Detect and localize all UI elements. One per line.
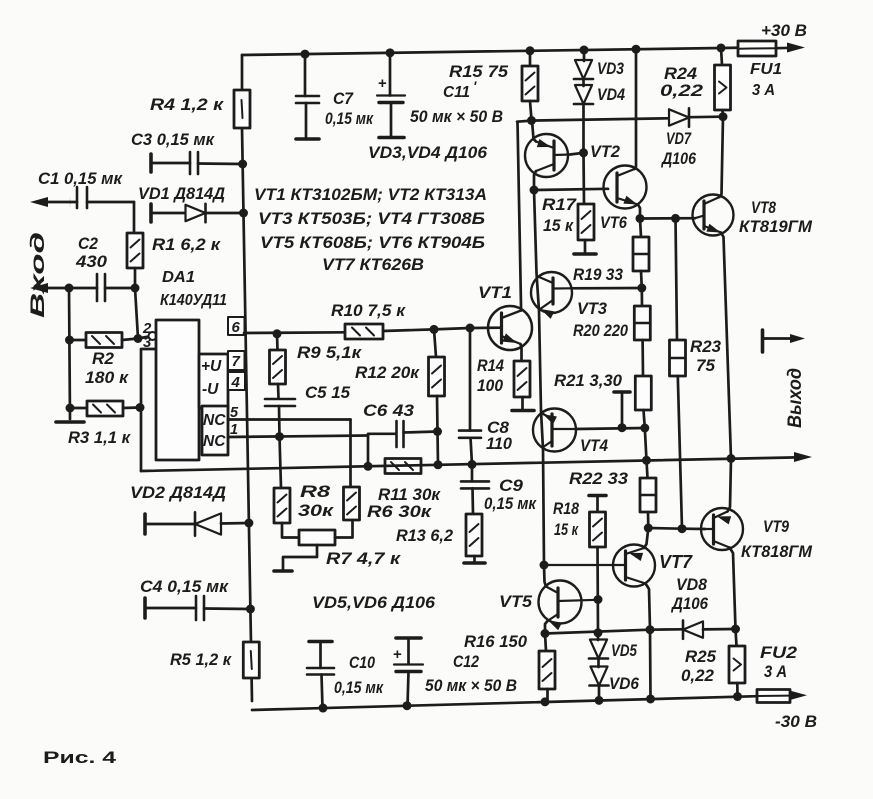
svg-text:VT4: VT4 [580, 437, 608, 455]
label pin 2 [142, 320, 152, 337]
diode VD8 Д106 [683, 620, 736, 638]
label VD7 [666, 130, 692, 148]
svg-text:R15 75: R15 75 [449, 63, 509, 81]
svg-text:С2: С2 [78, 235, 98, 253]
label VD2 Д814Д [130, 483, 226, 502]
node top rail x=305 [301, 50, 310, 59]
svg-text:VT5: VT5 [499, 593, 533, 611]
resistor R17 15к [578, 153, 594, 253]
label FU1 3A [750, 61, 782, 99]
pin 7 box [228, 351, 245, 370]
resistor R20 220 [634, 288, 650, 376]
node VT5 emitter [541, 629, 550, 638]
label Выход [785, 368, 806, 428]
wire -30V bottom rail [252, 696, 757, 710]
wire top rail to +30V arrow [776, 46, 792, 49]
label C4 0,15 мк [140, 578, 230, 596]
label VT9 [763, 517, 789, 536]
label C11' [443, 78, 477, 101]
wire C6 left down to feedback line [367, 436, 370, 467]
svg-text:+: + [378, 75, 387, 92]
svg-text:С7: С7 [333, 90, 354, 108]
label pin 1 [230, 422, 238, 438]
svg-text:100: 100 [477, 377, 504, 395]
label R3 1,1 к [68, 429, 132, 447]
label pin 7 [232, 353, 241, 370]
svg-text:R14: R14 [477, 357, 504, 375]
svg-text:180 к: 180 к [85, 369, 130, 387]
node bottom rail x=545 [541, 697, 550, 706]
node VT3 collector [637, 284, 646, 293]
node C9 top [468, 460, 477, 469]
resistor R18 15к [590, 496, 606, 632]
op-amp DA1 NC box [202, 406, 228, 455]
svg-text:6: 6 [232, 319, 241, 336]
svg-text:VD6: VD6 [609, 675, 640, 693]
wire VT9 emitter down [730, 548, 736, 630]
svg-text:VD3: VD3 [597, 60, 624, 78]
label R2 180к [85, 350, 130, 387]
label +U [201, 358, 222, 375]
label C3 0,15 мк [131, 131, 216, 149]
wire VT6 emitter down [638, 205, 640, 219]
label R25 0,22 [681, 648, 717, 685]
label R11 30к [378, 485, 441, 504]
svg-text:0,15 мк: 0,15 мк [325, 110, 374, 128]
svg-text:VD4: VD4 [597, 86, 625, 104]
op-amp DA1 supply box +U/-U [199, 354, 228, 408]
terminal C12 [396, 636, 421, 640]
label VT6 [600, 214, 628, 232]
svg-text:R25: R25 [685, 648, 717, 666]
label R10 7,5 к [331, 302, 407, 320]
resistor R21 3,30 [635, 376, 651, 428]
diode VD2 Д814Д [145, 512, 249, 535]
label VD4 [597, 86, 625, 104]
+30V output arrow [787, 43, 805, 53]
label C7 0,15 мк [325, 90, 374, 128]
node bottom rail x=650.5 [646, 694, 655, 703]
node R2/pin2 [134, 334, 143, 343]
wire FU2 to arrow [790, 694, 794, 697]
node VT6 emitter [636, 214, 645, 223]
wire pin1 node down to R8 [280, 437, 282, 488]
label R20 220 [573, 322, 629, 340]
wire VT2 base [570, 153, 584, 155]
wire VT8 emitter down to output [721, 233, 731, 459]
node R23 bottom [678, 524, 687, 533]
transistor VT4 [533, 409, 576, 452]
svg-text:VT3: VT3 [577, 300, 607, 318]
wire R21/R22 through output [645, 428, 648, 478]
label parts list line3 [260, 234, 485, 252]
label 50мк x 50В [410, 108, 503, 126]
svg-text:VT9: VT9 [763, 517, 789, 536]
wire VD4 to VT2 base [582, 104, 585, 153]
label parts list line4 [322, 256, 424, 274]
svg-text:15 к: 15 к [554, 521, 579, 539]
label C10 [334, 654, 384, 697]
terminal C4 [143, 598, 147, 618]
terminal C3 [149, 154, 153, 172]
svg-text:NC: NC [203, 433, 226, 450]
capacitor C4 0,15мк [145, 596, 250, 620]
node VT5 base [594, 595, 603, 604]
capacitor C11 50мк [377, 53, 405, 137]
label R21 3,30 [554, 372, 623, 390]
label NC bottom [203, 433, 226, 450]
pin 6 box [228, 317, 245, 335]
node R12/R11 right [434, 460, 443, 469]
label C12 plus [393, 646, 402, 663]
node bottom rail x=737.5 [733, 692, 742, 701]
svg-text:NC: NC [203, 412, 226, 429]
op-amp DA1 main box [156, 320, 199, 460]
node VD8 right [731, 625, 740, 634]
wire VT5 collector up [544, 565, 546, 587]
svg-text:+: + [393, 646, 402, 663]
label Д106 VD8 [670, 595, 709, 613]
terminal output [763, 330, 806, 352]
svg-text:VT7: VT7 [659, 552, 693, 572]
ground left bus [56, 420, 84, 424]
svg-text:VT8: VT8 [751, 198, 776, 217]
wire VT1 emitter to R14 [521, 344, 522, 361]
svg-text:R12 20к: R12 20к [355, 364, 421, 382]
wire VT1 base [434, 328, 502, 330]
label R14 100 [477, 357, 504, 395]
node top rail x=390 [386, 48, 395, 57]
node R23 top [671, 214, 680, 223]
wire pin3 feedback vertical [141, 349, 156, 471]
wire VT6 collector to rail [635, 49, 637, 169]
pin 4 box [228, 372, 245, 390]
wire VT7 line to rail [649, 630, 652, 699]
label C5 15 [305, 384, 351, 402]
svg-text:Д106: Д106 [660, 150, 696, 168]
label R5 1,2 к [170, 651, 233, 669]
label C2 430 [75, 235, 108, 271]
wire VT3 collector right [572, 287, 642, 290]
node VD2 on bus [244, 519, 253, 528]
wire VT5 emitter line to VD8 line [545, 629, 682, 633]
label C8 110 [486, 419, 513, 453]
svg-text:R7 4,7 к: R7 4,7 к [326, 550, 402, 568]
svg-text:С4 0,15 мк: С4 0,15 мк [140, 578, 230, 596]
capacitor C10 0,15мк [307, 642, 334, 709]
capacitor C5 15 [265, 399, 295, 437]
svg-text:С1 0,15 мк: С1 0,15 мк [38, 170, 124, 188]
capacitor C2 [97, 274, 135, 301]
svg-text:R6 30к: R6 30к [367, 503, 433, 521]
terminal VD2 [143, 514, 147, 534]
fuse FU2 3A [757, 690, 790, 703]
label VT7 [659, 552, 693, 572]
node VT7 base [540, 561, 549, 570]
output arrow [794, 452, 812, 462]
wire VD6 to rail [598, 686, 601, 701]
resistor R3 1,1к [70, 401, 140, 416]
svg-text:R5 1,2 к: R5 1,2 к [170, 651, 233, 669]
svg-text:VT6: VT6 [600, 214, 628, 232]
svg-text:+U: +U [201, 358, 222, 375]
svg-text:+30 В: +30 В [761, 21, 807, 40]
svg-text:FU1: FU1 [750, 61, 782, 78]
svg-text:С5 15: С5 15 [305, 384, 351, 402]
terminal R13 [464, 561, 485, 565]
svg-text:R9 5,1к: R9 5,1к [297, 344, 363, 362]
pin 2 circle [149, 332, 157, 340]
svg-text:7: 7 [232, 353, 241, 370]
svg-text:3: 3 [143, 334, 152, 351]
label C11 plus [378, 75, 387, 92]
svg-text:VD7: VD7 [666, 130, 692, 148]
svg-text:R24: R24 [664, 65, 697, 83]
node top rail x=721 [717, 43, 726, 52]
label КТ819ГМ [739, 218, 813, 236]
label VD1 Д814Д [138, 185, 225, 203]
wire VT6 emitter to VT8 base [640, 217, 695, 220]
svg-text:R22 33: R22 33 [569, 470, 628, 488]
label R1 6,2 к [152, 236, 222, 254]
svg-text:VT5 КТ608Б; VT6 КТ904Б: VT5 КТ608Б; VT6 КТ904Б [260, 234, 485, 252]
svg-text:КТ819ГМ: КТ819ГМ [739, 218, 813, 236]
wire VT7 emitter down [646, 584, 651, 630]
terminal C7 [296, 137, 319, 141]
label VT1 [478, 283, 512, 302]
transistor VT1 [488, 306, 532, 350]
label К140УД11 [160, 292, 227, 309]
label R15 75 [449, 63, 509, 81]
node VT2 base [579, 148, 588, 157]
node top rail x=584 [580, 45, 589, 54]
wire C1 to R1 [133, 202, 136, 233]
node R1/C2 [131, 284, 140, 293]
label -U [202, 381, 219, 398]
node VT4 emitter right [640, 424, 649, 433]
resistor R19 33 [633, 219, 649, 289]
label VD3 [597, 60, 624, 78]
label R12 20к [355, 364, 421, 382]
label VT4 [580, 437, 608, 455]
transistor VT8 [693, 195, 734, 236]
label pin 5 [230, 405, 239, 421]
wire VT2 collector down [534, 171, 536, 190]
svg-text:R10 7,5 к: R10 7,5 к [331, 302, 407, 320]
wire R23/R22 node to VT9 base [682, 527, 705, 530]
label VT3 [577, 300, 607, 318]
svg-text:С6 43: С6 43 [363, 402, 414, 420]
node C8 top [466, 324, 475, 333]
node R24 bottom [719, 112, 728, 121]
svg-text:Д106: Д106 [670, 595, 709, 613]
wire pin6 to R10 [244, 331, 345, 334]
resistor R13 6,2 [466, 514, 482, 562]
label Вход [28, 232, 49, 318]
node VT2 collector [530, 186, 539, 195]
label VD3,VD4 Д106 [368, 144, 488, 162]
wire pin2 [138, 337, 149, 339]
label VT2 [590, 143, 620, 161]
svg-text:К140УД11: К140УД11 [160, 292, 227, 309]
wire VT5 emitter down [545, 621, 548, 634]
svg-text:VD3,VD4 Д106: VD3,VD4 Д106 [368, 144, 488, 162]
wire +30V top rail [242, 48, 738, 55]
node R10/R12 top [430, 325, 439, 334]
label R22 33 [569, 470, 628, 488]
svg-text:R20 220: R20 220 [573, 322, 629, 340]
svg-text:VT1: VT1 [478, 283, 512, 302]
svg-text:VD1 Д814Д: VD1 Д814Д [138, 185, 225, 203]
label NC top [203, 412, 226, 429]
capacitor C7 0,15мк [296, 54, 319, 139]
fuse FU1 3A [738, 41, 776, 56]
svg-text:VT7 КТ626В: VT7 КТ626В [322, 256, 424, 274]
svg-text:КТ818ГМ: КТ818ГМ [741, 543, 813, 561]
wire VT9 collector up to output [728, 459, 732, 512]
node R3/pin3 [136, 403, 145, 412]
diode VD1 Д814Д [151, 204, 243, 222]
resistor R10 7,5к [345, 324, 434, 339]
label R19 33 [573, 266, 623, 284]
node R22 bottom [644, 524, 653, 533]
label +30 В [761, 21, 807, 40]
wire output line [141, 457, 800, 471]
capacitor C6 43 [368, 421, 438, 447]
svg-text:R1 6,2 к: R1 6,2 к [152, 236, 222, 254]
svg-text:R21 3,30: R21 3,30 [554, 372, 623, 390]
transistor VT2 [525, 134, 570, 177]
label Д106 VD7 [660, 150, 696, 168]
input arrow lower [30, 283, 97, 293]
wire VT1 collector up [518, 122, 522, 311]
svg-text:VT2: VT2 [590, 143, 620, 161]
svg-text:VD5,VD6 Д106: VD5,VD6 Д106 [312, 594, 436, 612]
node R3 tap [66, 404, 75, 413]
capacitor C8 110 [459, 328, 481, 464]
label pin 4 [231, 374, 241, 391]
wire left bus vertical [242, 55, 252, 701]
diode VD6 [589, 658, 639, 693]
transistor VT9 [701, 508, 743, 550]
resistor R16 150 [539, 634, 555, 702]
label parts list line2 [258, 210, 485, 228]
node VD1 on bus [239, 209, 248, 218]
node VD5 top [594, 628, 603, 637]
node C3 on bus [238, 160, 247, 169]
node top rail x=530 [526, 46, 535, 55]
node input lower bus [65, 284, 74, 293]
svg-text:VT1 КТ3102БМ; VT2 КТ313А: VT1 КТ3102БМ; VT2 КТ313А [254, 186, 487, 204]
transistor VT7 [544, 545, 655, 587]
label R23 75 [690, 338, 721, 375]
resistor R11 30к [385, 459, 421, 474]
svg-text:R18: R18 [553, 500, 580, 518]
svg-text:R11 30к: R11 30к [378, 485, 441, 504]
svg-text:R23: R23 [690, 338, 721, 356]
svg-text:Вход: Вход [28, 232, 49, 318]
terminal VD1 [149, 204, 153, 222]
svg-text:0,22: 0,22 [681, 667, 714, 685]
resistor R4 1,2к [234, 90, 250, 128]
transistor VT3 [531, 272, 572, 319]
label pin 3 [143, 334, 152, 351]
svg-text:-U: -U [202, 381, 219, 398]
resistor R5 1,2к [243, 642, 259, 678]
label C12 [425, 653, 517, 695]
wire pin 5 [228, 418, 351, 421]
wire R1 to C2 node [134, 268, 137, 288]
terminal R14 [512, 409, 534, 413]
svg-text:15 к: 15 к [543, 217, 575, 235]
wire VT2-VT3-VT4 chain [534, 190, 544, 565]
resistor R23 75 [670, 218, 686, 528]
node output/VT8-VT9 [727, 454, 736, 463]
wire R22 node to VT9 base node [648, 527, 682, 530]
svg-text:R4 1,2 к: R4 1,2 к [150, 96, 225, 114]
resistor R7 4,7к [299, 530, 335, 545]
node bottom rail x=323 [319, 704, 328, 713]
label R4 1,2 к [150, 96, 225, 114]
wire R15/VT1 junction to VD7 [517, 118, 668, 121]
label VT8 [751, 198, 776, 217]
svg-text:3 А: 3 А [752, 82, 775, 99]
label R13 6,2 [396, 527, 453, 545]
label VD5,VD6 Д106 [312, 594, 436, 612]
label pin 6 [232, 319, 241, 336]
node VT7 bottom [646, 625, 655, 634]
svg-text:R8: R8 [300, 483, 331, 501]
node bottom rail x=407 [403, 701, 412, 710]
wire pin 1 [228, 436, 368, 438]
node C4 on bus [246, 605, 255, 614]
svg-text:Рис. 4: Рис. 4 [43, 749, 117, 767]
svg-text:VD8: VD8 [676, 576, 708, 594]
svg-text:5: 5 [230, 405, 239, 421]
capacitor C1 [70, 187, 134, 208]
svg-text:С10: С10 [349, 654, 376, 672]
label Рис. 4 [43, 749, 117, 767]
label R7 4,7к [326, 550, 402, 568]
resistor R14 100 [514, 361, 530, 409]
resistor R12 20к [429, 329, 445, 464]
-30V arrow [789, 690, 807, 700]
label R9 5,1к [297, 344, 363, 362]
terminal R7 tap [274, 569, 292, 573]
node C6 right / R12 [433, 427, 442, 436]
svg-text:0,15 мк: 0,15 мк [334, 679, 384, 697]
capacitor C9 0,15мк [461, 464, 489, 514]
label -30 В [775, 712, 817, 731]
label КТ818ГМ [741, 543, 813, 561]
label FU2 3A [760, 644, 797, 681]
node R9 top [273, 329, 282, 338]
label C6 43 [363, 402, 414, 420]
svg-text:R13 6,2: R13 6,2 [396, 527, 453, 545]
wire VT2 to VT6 base [534, 189, 608, 190]
node R22 top [642, 456, 651, 465]
input arrow upper [30, 197, 70, 207]
label R24 0,22 [660, 65, 703, 100]
wire R8 to R7 [282, 523, 299, 538]
label DA1 [162, 269, 195, 286]
svg-text:VD5: VD5 [611, 642, 638, 660]
svg-text:С12: С12 [453, 653, 479, 671]
svg-text:75: 75 [696, 357, 716, 375]
resistor R24 0,22 [715, 48, 731, 117]
diode VD7 Д106 [669, 108, 721, 126]
svg-text:30к: 30к [298, 502, 335, 520]
